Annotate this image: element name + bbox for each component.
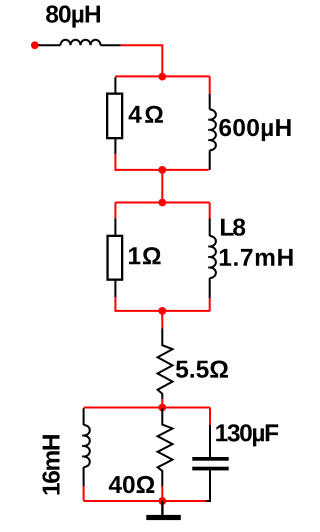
wire lead R1 bottom black xyxy=(114,139,116,155)
wire lead R1 top xyxy=(114,77,116,94)
capacitor C1 top plate xyxy=(192,457,228,461)
wire lead L8 bottom red xyxy=(209,298,211,311)
wire section3 bottom xyxy=(84,500,206,502)
ground stub xyxy=(161,501,163,516)
wire lead L8 bottom black xyxy=(209,278,211,298)
wire section2 bottom xyxy=(115,310,210,312)
wire lead R2 bottom red xyxy=(114,297,116,312)
resistor R4 40ohm zigzag xyxy=(158,408,173,486)
wire input to section1 xyxy=(121,45,163,76)
capacitor C1 bottom plate xyxy=(192,467,228,471)
coil pinch nubs L8 xyxy=(208,247,210,268)
wire lead 16mH bottom red xyxy=(83,486,85,501)
wire lead 16mH top xyxy=(83,408,85,425)
value label 4ohm xyxy=(129,106,163,123)
node section3 top junction xyxy=(158,404,166,412)
node section2 bottom junction xyxy=(158,307,166,315)
node section2 top junction xyxy=(158,199,166,207)
value label 80uH xyxy=(46,5,100,27)
wire lead L8 top red xyxy=(209,203,211,219)
ref label L8 xyxy=(221,219,245,236)
value label 40ohm xyxy=(109,476,155,493)
resistor R1 4ohm body xyxy=(107,94,122,138)
coil pinch nubs 600uH xyxy=(208,120,210,140)
inductor 600uH coil xyxy=(210,110,216,151)
coil pinch nubs 16mH xyxy=(82,436,84,457)
wire input left xyxy=(39,44,61,46)
value label 1ohm xyxy=(129,247,161,264)
wire lead 600uH top black xyxy=(209,94,211,110)
wire input right xyxy=(101,44,121,46)
wire section1 bottom xyxy=(115,169,209,171)
resistor R2 1ohm body xyxy=(108,236,123,280)
resistor R3 5.5ohm zigzag xyxy=(158,329,173,400)
wire lead R2 bottom black xyxy=(114,280,116,298)
wire lead 16mH bottom black xyxy=(83,467,85,486)
wire lead C1 bottom xyxy=(206,470,210,501)
value label 600uH xyxy=(219,119,290,141)
wire section2 top xyxy=(115,202,210,204)
value label 5.5ohm xyxy=(176,361,228,378)
wire section1 top xyxy=(115,75,210,77)
inductor 16mH coil xyxy=(84,425,90,467)
node section1 bottom junction xyxy=(158,166,166,174)
wire lead R2 top red xyxy=(114,203,116,219)
node section1 top junction xyxy=(158,73,166,81)
wire lead C1 top black xyxy=(209,425,211,457)
wire connector R3 to section3 xyxy=(161,399,163,408)
wire section3 top xyxy=(84,407,210,409)
inductor L8 coil xyxy=(210,236,216,278)
wire lead R4 bottom red xyxy=(161,486,163,501)
ground bar xyxy=(146,515,181,520)
value label 1.7mH xyxy=(220,249,293,266)
wire lead R1 bottom red xyxy=(114,154,116,171)
node IN terminal dot xyxy=(31,41,39,49)
wire lead 600uH top red xyxy=(209,76,211,94)
wire lead C1 top red xyxy=(209,408,211,426)
value label 130uF xyxy=(216,424,278,446)
inductor 80uH coil xyxy=(61,40,101,45)
wire lead R2 top black xyxy=(114,219,116,237)
value label 16mH rotated xyxy=(42,435,59,494)
wire lead 600uH bottom black xyxy=(209,150,211,170)
wire connector to R3 xyxy=(161,311,163,329)
node ground junction xyxy=(159,497,167,505)
wire lead L8 top black xyxy=(209,219,211,237)
wire connector section1-section2 xyxy=(161,170,163,203)
